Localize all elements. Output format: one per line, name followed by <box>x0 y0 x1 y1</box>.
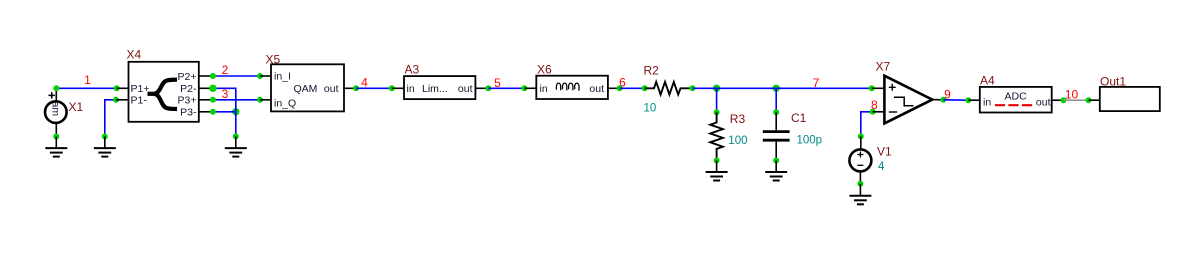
node P1- ground <box>102 134 108 140</box>
svg-text:10: 10 <box>644 102 657 114</box>
node net6 right <box>642 85 648 91</box>
svg-text:am: am <box>50 102 62 117</box>
ground under V1 <box>849 184 871 205</box>
A4 red dashed line <box>995 104 1035 106</box>
svg-text:9: 9 <box>944 87 951 101</box>
svg-text:5: 5 <box>494 76 501 90</box>
svg-text:P3+: P3+ <box>178 95 197 107</box>
resistor R2 <box>645 82 692 95</box>
node R3 upper <box>714 109 720 115</box>
block X4 body <box>129 62 199 122</box>
wire net8 to V1 <box>861 112 873 137</box>
svg-text:V1: V1 <box>877 145 892 159</box>
block A3 body <box>404 76 475 99</box>
op-amp X7 triangle <box>884 76 932 124</box>
junction node under X4 <box>232 108 239 115</box>
X4 right stubs <box>199 76 213 112</box>
stub X5 in_I <box>260 75 271 77</box>
node X7 minus input <box>870 109 876 115</box>
svg-text:6: 6 <box>619 76 626 90</box>
X4 splitter symbol <box>148 80 178 109</box>
block X6 body <box>536 76 608 99</box>
node X1 top <box>53 85 59 91</box>
wire R3 drop <box>716 88 718 112</box>
wire P3- to junction <box>213 111 236 113</box>
svg-text:X4: X4 <box>127 48 142 62</box>
svg-text:A4: A4 <box>980 74 995 88</box>
svg-text:100p: 100p <box>797 135 823 147</box>
node P3- <box>210 109 216 115</box>
svg-text:out: out <box>458 83 473 95</box>
wire junction down to ground <box>235 112 237 137</box>
svg-text:P1+: P1+ <box>131 83 150 95</box>
resistor R3 <box>710 112 723 160</box>
ground under P1- <box>94 137 116 157</box>
svg-text:7: 7 <box>813 76 820 90</box>
stub P1+ <box>117 87 129 89</box>
svg-text:X6: X6 <box>537 63 552 77</box>
svg-text:ADC: ADC <box>1005 90 1028 102</box>
V1 bottom lead <box>859 171 861 183</box>
stub A4 in <box>968 99 980 101</box>
node P3+ <box>210 97 216 103</box>
svg-text:P2-: P2- <box>180 83 197 95</box>
stub X5 out <box>344 87 356 89</box>
node after R2 <box>689 85 695 91</box>
node net6 left <box>617 85 623 91</box>
stub A3 out <box>475 87 488 89</box>
stub P1- <box>116 99 129 101</box>
svg-text:QAM: QAM <box>294 83 318 95</box>
svg-text:P1-: P1- <box>131 95 148 107</box>
svg-text:R3: R3 <box>730 112 746 126</box>
wire P1- to ground <box>105 100 116 137</box>
svg-text:out: out <box>589 83 604 95</box>
node P1- <box>113 97 119 103</box>
node net10 left <box>1061 97 1067 103</box>
node net4 right <box>389 85 395 91</box>
node X7 plus input <box>869 85 875 91</box>
wire net3 <box>213 99 260 101</box>
V1 minus sign <box>857 164 863 166</box>
node P2+ <box>210 73 216 79</box>
wire net7 <box>692 87 871 89</box>
svg-text:Lim...: Lim... <box>422 83 448 95</box>
stub X7 out <box>932 99 943 101</box>
wire P2- to ground corner <box>213 88 236 112</box>
wire C1 drop <box>775 88 777 112</box>
svg-text:out: out <box>324 83 339 95</box>
node net9 right <box>965 97 971 103</box>
wire net2 <box>213 75 260 77</box>
svg-text:2: 2 <box>222 63 229 77</box>
wire net10 gray <box>1064 99 1089 101</box>
node C1 lower <box>773 158 779 164</box>
svg-text:X1: X1 <box>69 100 84 114</box>
capacitor C1 <box>763 112 790 160</box>
V1 plus sign <box>857 152 863 158</box>
svg-text:10: 10 <box>1065 87 1079 101</box>
wire net9 <box>943 99 968 101</box>
junction node C1 top <box>773 85 780 92</box>
wire net1 X1 to X4 <box>56 87 116 89</box>
node under V1 <box>857 181 863 187</box>
source X1 circle <box>45 88 67 136</box>
node net2 right <box>257 73 263 79</box>
stub X6 out <box>608 87 620 89</box>
svg-text:in_Q: in_Q <box>274 97 296 109</box>
node net5 left <box>485 85 491 91</box>
node X1 bottom <box>53 134 59 140</box>
wire net4 <box>356 87 392 89</box>
node P2- <box>209 85 216 92</box>
block X5 body <box>271 64 344 111</box>
stub A3 in <box>392 87 404 89</box>
stub X7 minus <box>873 111 885 113</box>
X7 step symbol <box>894 97 914 106</box>
node net10 right <box>1086 97 1092 103</box>
node net9 left <box>940 97 946 103</box>
svg-text:8: 8 <box>871 98 878 112</box>
stub X5 in_Q <box>260 99 271 101</box>
svg-text:in: in <box>407 83 415 95</box>
node C1 upper <box>773 109 779 115</box>
block A4 body <box>980 87 1052 113</box>
X6 coil symbol <box>556 83 579 91</box>
svg-text:Out1: Out1 <box>1100 75 1126 89</box>
svg-text:4: 4 <box>361 76 368 90</box>
wire net6 <box>620 87 645 89</box>
svg-text:1: 1 <box>84 73 91 87</box>
svg-text:out: out <box>1036 96 1051 108</box>
svg-text:C1: C1 <box>791 111 807 125</box>
svg-text:in_I: in_I <box>274 70 291 82</box>
svg-text:P3-: P3- <box>180 107 197 119</box>
X7 plus sign <box>889 84 896 91</box>
svg-text:X5: X5 <box>266 53 281 67</box>
stub X6 in <box>524 87 536 89</box>
node P1+ <box>114 85 120 91</box>
svg-text:in: in <box>983 96 991 108</box>
junction node R3 top <box>713 85 720 92</box>
stub A4 out <box>1052 99 1064 101</box>
source V1 circle <box>849 149 871 171</box>
X7 minus sign <box>889 111 897 113</box>
node R3 lower <box>714 158 720 164</box>
V1 top lead <box>860 136 862 149</box>
ground under X1 <box>45 137 67 157</box>
node above X4 ground <box>233 133 239 139</box>
ground under X4 <box>225 136 247 156</box>
svg-text:in: in <box>540 83 548 95</box>
stub Out1 in <box>1089 99 1100 101</box>
svg-text:A3: A3 <box>405 63 420 77</box>
svg-text:X7: X7 <box>876 60 891 74</box>
svg-text:100: 100 <box>728 135 747 147</box>
ground under R3 <box>706 161 728 181</box>
svg-text:4: 4 <box>878 161 885 173</box>
node net5 right <box>521 85 527 91</box>
node on V1 wire <box>858 133 864 139</box>
node net4 left <box>353 85 359 91</box>
stub X7 plus <box>872 87 885 89</box>
svg-text:P2+: P2+ <box>178 71 197 83</box>
block Out1 body <box>1100 87 1160 111</box>
ground under C1 <box>765 161 787 181</box>
node net3 right <box>257 97 263 103</box>
svg-text:R2: R2 <box>644 64 660 78</box>
wire net5 <box>488 87 524 89</box>
